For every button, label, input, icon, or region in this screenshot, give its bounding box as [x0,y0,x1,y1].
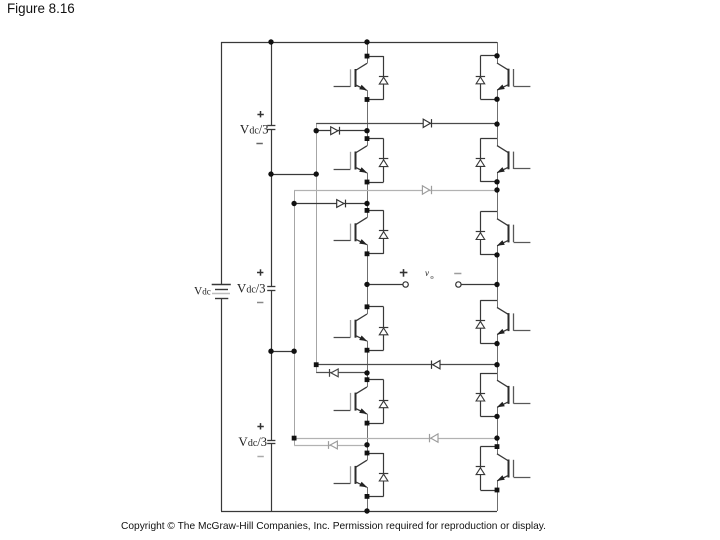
svg-text:Vdc/3: Vdc/3 [240,122,269,137]
svg-text:v: v [425,268,429,278]
svg-text:Vdc: Vdc [194,285,211,297]
svg-text:o: o [430,274,433,281]
svg-text:Vdc/3: Vdc/3 [238,434,267,449]
svg-text:Vdc/3: Vdc/3 [237,280,266,295]
